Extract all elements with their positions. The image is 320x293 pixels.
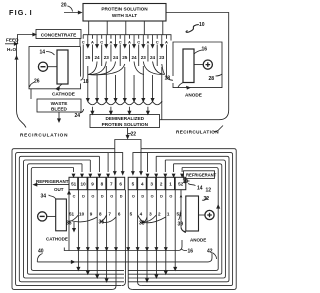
svg-text:4: 4 xyxy=(141,182,144,187)
svg-text:A: A xyxy=(128,40,131,45)
svg-text:7: 7 xyxy=(110,182,113,187)
svg-text:18: 18 xyxy=(165,75,171,81)
svg-text:36: 36 xyxy=(99,220,105,226)
svg-text:42: 42 xyxy=(207,249,213,255)
svg-text:C: C xyxy=(73,194,76,198)
svg-text:O: O xyxy=(110,195,113,199)
svg-text:CATHODE: CATHODE xyxy=(52,92,75,97)
svg-text:24: 24 xyxy=(113,55,119,60)
svg-text:ANODE: ANODE xyxy=(185,93,202,98)
svg-text:D: D xyxy=(160,195,163,199)
svg-text:5: 5 xyxy=(132,182,135,187)
svg-text:8: 8 xyxy=(101,182,104,187)
svg-text:C: C xyxy=(156,40,159,45)
svg-text:3: 3 xyxy=(150,182,153,187)
svg-text:O: O xyxy=(132,195,135,199)
svg-text:C: C xyxy=(137,40,140,45)
svg-text:5: 5 xyxy=(130,212,133,217)
svg-text:10: 10 xyxy=(79,212,85,217)
svg-text:9: 9 xyxy=(90,212,93,217)
svg-text:REFRIGERANT: REFRIGERANT xyxy=(186,172,217,177)
svg-text:40: 40 xyxy=(38,249,44,255)
svg-text:14: 14 xyxy=(40,50,46,56)
svg-text:D: D xyxy=(101,195,104,199)
svg-text:16: 16 xyxy=(202,47,208,53)
svg-text:D: D xyxy=(141,195,144,199)
svg-text:REFRIGERANT: REFRIGERANT xyxy=(36,179,69,184)
svg-text:WASTE: WASTE xyxy=(51,101,68,106)
svg-text:39: 39 xyxy=(178,222,184,228)
svg-text:14: 14 xyxy=(197,186,203,192)
svg-text:24: 24 xyxy=(94,55,100,60)
svg-text:4: 4 xyxy=(140,212,143,217)
svg-text:C: C xyxy=(119,40,122,45)
svg-text:A: A xyxy=(147,40,150,45)
svg-text:2: 2 xyxy=(160,182,163,187)
svg-text:A: A xyxy=(165,40,168,45)
svg-text:O: O xyxy=(151,195,154,199)
svg-text:52: 52 xyxy=(178,182,184,187)
svg-text:23: 23 xyxy=(104,55,110,60)
svg-text:10: 10 xyxy=(81,182,87,187)
svg-text:25: 25 xyxy=(85,55,91,60)
svg-text:51: 51 xyxy=(71,182,77,187)
svg-text:9: 9 xyxy=(91,182,94,187)
svg-text:38: 38 xyxy=(139,221,145,227)
svg-text:OUT: OUT xyxy=(54,187,64,192)
svg-text:CATHODE: CATHODE xyxy=(46,237,68,242)
svg-text:25: 25 xyxy=(122,55,128,60)
svg-text:A: A xyxy=(110,40,113,45)
svg-text:CONCENTRATE: CONCENTRATE xyxy=(41,33,77,38)
svg-text:2: 2 xyxy=(158,212,161,217)
svg-text:O: O xyxy=(91,195,94,199)
svg-text:C: C xyxy=(100,40,103,45)
svg-text:36: 36 xyxy=(66,221,72,227)
svg-text:8: 8 xyxy=(99,212,102,217)
svg-text:26: 26 xyxy=(34,79,40,85)
svg-text:A: A xyxy=(91,40,94,45)
svg-text:52: 52 xyxy=(176,212,182,217)
svg-text:A: A xyxy=(180,195,183,199)
svg-text:24: 24 xyxy=(150,55,156,60)
svg-text:BLEED: BLEED xyxy=(51,107,68,112)
svg-text:WITH SALT: WITH SALT xyxy=(112,13,137,18)
svg-text:12: 12 xyxy=(206,188,212,194)
svg-text:C: C xyxy=(82,40,85,45)
svg-text:20.: 20. xyxy=(61,3,69,9)
svg-text:22: 22 xyxy=(131,132,137,138)
svg-text:32: 32 xyxy=(204,196,210,202)
svg-text:19: 19 xyxy=(183,179,189,185)
svg-text:6: 6 xyxy=(119,182,122,187)
svg-text:1: 1 xyxy=(169,182,172,187)
svg-text:H₂O: H₂O xyxy=(7,47,16,52)
svg-text:PROTEIN SOLUTION: PROTEIN SOLUTION xyxy=(101,7,148,12)
svg-text:ANODE: ANODE xyxy=(190,238,206,243)
svg-text:D: D xyxy=(120,195,123,199)
svg-text:28: 28 xyxy=(209,76,215,82)
svg-text:18: 18 xyxy=(83,79,89,85)
svg-text:FEED: FEED xyxy=(6,38,19,43)
svg-text:PROTEIN SOLUTION: PROTEIN SOLUTION xyxy=(102,122,149,127)
svg-text:24: 24 xyxy=(131,55,137,60)
svg-text:D: D xyxy=(82,195,85,199)
svg-text:O: O xyxy=(169,195,172,199)
svg-text:34: 34 xyxy=(41,194,47,200)
svg-text:23: 23 xyxy=(141,55,147,60)
svg-text:RECIRCULATION: RECIRCULATION xyxy=(176,130,219,135)
svg-text:RECIRCULATION: RECIRCULATION xyxy=(20,133,68,138)
svg-text:23: 23 xyxy=(159,55,165,60)
svg-text:3: 3 xyxy=(149,212,152,217)
svg-text:10: 10 xyxy=(199,22,205,28)
svg-text:51: 51 xyxy=(69,212,75,217)
svg-text:1: 1 xyxy=(167,212,170,217)
svg-text:24: 24 xyxy=(75,113,81,119)
svg-text:6: 6 xyxy=(118,212,121,217)
svg-text:7: 7 xyxy=(108,212,111,217)
svg-text:FIG. I: FIG. I xyxy=(9,8,33,17)
svg-text:16: 16 xyxy=(188,249,194,255)
svg-text:DEMINERALIZED: DEMINERALIZED xyxy=(106,116,145,121)
